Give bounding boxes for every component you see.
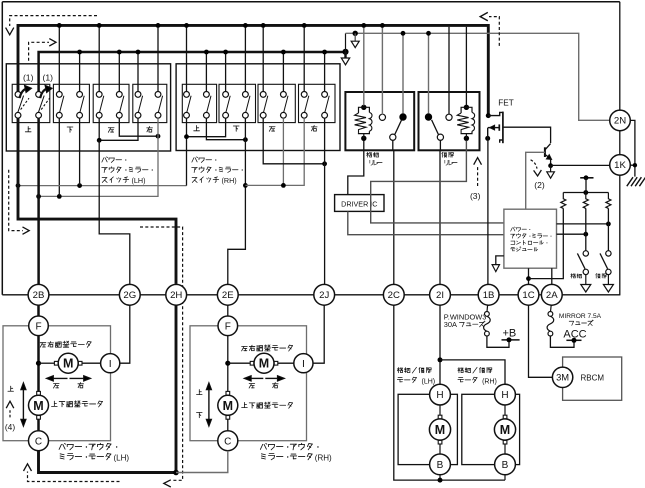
resistor network top rail bbox=[563, 192, 608, 194]
svg-text:+B: +B bbox=[503, 328, 517, 340]
wire 2N right bypass to ground bbox=[630, 120, 635, 176]
retract relay coil with resistor bbox=[361, 105, 366, 110]
wire F to M2 RH bbox=[227, 336, 229, 392]
svg-text:2G: 2G bbox=[123, 290, 136, 301]
resistor R2 bbox=[583, 193, 588, 209]
svg-text:(RH): (RH) bbox=[222, 176, 237, 185]
power outer mirror switch LH box bbox=[6, 64, 170, 151]
ACC tap bbox=[566, 339, 581, 341]
wire 2E to F bbox=[227, 305, 229, 316]
retract relay contacts bbox=[379, 114, 385, 120]
wire: 1K to row bbox=[619, 175, 621, 295]
MIRROR fuse bbox=[550, 305, 553, 311]
dashed guide arrow (2) bbox=[531, 160, 537, 169]
long dashed guide down the middle bbox=[140, 227, 183, 480]
wire I to 2J bbox=[313, 305, 324, 363]
retract motor RH label bbox=[458, 367, 492, 373]
wire M1 to I RH bbox=[278, 362, 294, 364]
up down arrow RH bbox=[208, 388, 210, 421]
wire: main loop left edge bbox=[1, 2, 3, 295]
svg-text:(RH): (RH) bbox=[482, 378, 497, 385]
retract relay box bbox=[345, 92, 414, 150]
svg-text:M: M bbox=[259, 357, 269, 371]
svg-text:(1): (1) bbox=[43, 72, 54, 82]
svg-text:F: F bbox=[35, 321, 41, 332]
connector 1C bbox=[518, 284, 539, 305]
connector 2H bbox=[166, 284, 187, 305]
svg-text:B: B bbox=[502, 460, 509, 471]
retract motor RH box bbox=[462, 394, 520, 464]
adjust motor label RH bbox=[242, 345, 293, 351]
retract motor LH circles bbox=[430, 384, 451, 405]
switch LH label text bbox=[102, 157, 127, 163]
wire node to M1 RH bbox=[228, 362, 250, 364]
retract motor LH box bbox=[398, 394, 457, 464]
wire downL to line B bbox=[58, 118, 60, 196]
svg-text:B: B bbox=[437, 460, 444, 471]
switch RH solid blades bbox=[187, 96, 191, 113]
dashed guide arrow top-right bbox=[489, 17, 499, 46]
svg-text:(1): (1) bbox=[23, 72, 34, 82]
svg-text:(3): (3) bbox=[470, 191, 481, 201]
svg-text:(2): (2) bbox=[534, 180, 545, 190]
connector C RH bbox=[218, 431, 238, 451]
connector 2N bbox=[610, 110, 631, 131]
wire M2 to C bbox=[37, 419, 40, 430]
wire FET drain to transistor collector bbox=[503, 127, 551, 143]
emitter ground arrow bbox=[550, 166, 552, 172]
power outer mirror motor RH box bbox=[190, 326, 307, 441]
svg-text:M: M bbox=[63, 357, 73, 371]
svg-text:2B: 2B bbox=[33, 290, 45, 301]
wire FET source to 1B bbox=[487, 138, 489, 284]
connector C LH bbox=[29, 431, 49, 451]
retract motor RH circles bbox=[495, 384, 516, 405]
thick wire upR bottom to 2B bbox=[37, 118, 40, 284]
dashed guide arrow to-right mid-left bbox=[9, 170, 23, 231]
relay feed wires gray bbox=[363, 27, 365, 106]
+B tap bbox=[502, 339, 520, 341]
return relay feeds from bus1 bbox=[448, 27, 450, 115]
svg-text:(LH): (LH) bbox=[132, 176, 146, 185]
svg-text:(LH): (LH) bbox=[114, 453, 130, 462]
return relay contacts bbox=[425, 113, 432, 120]
motor RH label bbox=[260, 443, 318, 450]
switch LH inner boxes up/down/left/right bbox=[12, 84, 50, 122]
connector 2E bbox=[217, 284, 238, 305]
connector I RH bbox=[294, 354, 313, 373]
retract switch bbox=[585, 234, 587, 251]
svg-text:ACC: ACC bbox=[563, 329, 586, 341]
dashed guide arrow (3) bbox=[477, 165, 479, 186]
svg-text:3M: 3M bbox=[556, 372, 569, 383]
wire I to 2G bbox=[120, 305, 130, 363]
svg-text:1C: 1C bbox=[522, 290, 534, 301]
bus3 inline connector arrow bbox=[353, 31, 358, 36]
power tap bar bbox=[580, 177, 593, 179]
module ground pin arrow bbox=[496, 256, 504, 265]
svg-text:C: C bbox=[224, 436, 231, 447]
wire node to M1 bbox=[39, 362, 55, 364]
svg-text:2H: 2H bbox=[170, 290, 182, 301]
wire 2C down and across bottom bbox=[394, 305, 505, 480]
wire branch to RH retract motor bbox=[440, 360, 505, 384]
wire module pin to 1C bbox=[528, 268, 530, 284]
gray wire RH left-right motor pair bbox=[245, 118, 304, 185]
switch LH contact circles bbox=[15, 92, 21, 98]
power outer mirror switch RH box bbox=[176, 64, 340, 151]
wire LH leftR joins rightR bbox=[119, 118, 158, 136]
connector 1K bbox=[610, 155, 631, 176]
switch LH up-switch dashed blades and (1) arrows bbox=[18, 96, 24, 113]
switch RH contact circles bbox=[184, 92, 190, 98]
switch RH labels bbox=[194, 126, 200, 131]
svg-text:I: I bbox=[109, 358, 112, 370]
svg-text:H: H bbox=[436, 390, 443, 401]
return relay box bbox=[419, 92, 480, 150]
wire 2I down to motors bbox=[439, 305, 441, 384]
wire module to resistor2 / retract switch bbox=[557, 233, 586, 235]
gray wire C RH to bottom node bbox=[176, 451, 228, 473]
return relay label bbox=[442, 152, 454, 157]
wire LH rightR down to line B bbox=[39, 118, 158, 196]
motor M2 RH bbox=[226, 391, 230, 395]
svg-text:M: M bbox=[223, 399, 233, 413]
resistor R1 bbox=[561, 193, 566, 209]
RBCM box bbox=[563, 357, 622, 400]
wire: 2N to 1K bbox=[619, 131, 621, 155]
power outer mirror motor LH box bbox=[3, 326, 111, 441]
wire module to resistor3 / return switch bbox=[557, 223, 609, 225]
motor M1 LH (left-right) bbox=[54, 361, 58, 365]
svg-text:MIRROR 7.5A: MIRROR 7.5A bbox=[559, 313, 602, 320]
line B junction dots bbox=[36, 194, 41, 199]
svg-text:2E: 2E bbox=[222, 290, 234, 301]
connector F RH bbox=[218, 316, 238, 336]
connector I LH bbox=[101, 354, 120, 373]
connector 2G bbox=[119, 284, 140, 305]
wire RH leftL joins rightR wire bbox=[263, 118, 324, 164]
wire RH downR to 2E bbox=[228, 118, 246, 284]
connector 3M bbox=[552, 367, 572, 387]
svg-text:(4): (4) bbox=[5, 422, 15, 432]
connector F LH bbox=[29, 316, 49, 336]
svg-text:M: M bbox=[435, 423, 445, 437]
retract relay label bbox=[367, 152, 379, 157]
dashed guide arrow small right bbox=[29, 42, 49, 61]
connector 2J bbox=[314, 284, 335, 305]
svg-text:2J: 2J bbox=[319, 290, 329, 301]
resistor1 branch to 1C wire bbox=[529, 208, 564, 278]
connector 1B bbox=[478, 284, 499, 305]
motor M2 LH (up-down) bbox=[37, 391, 41, 395]
svg-text:(RH): (RH) bbox=[315, 453, 332, 462]
svg-text:レ: レ bbox=[372, 160, 379, 167]
left right arrows RH bbox=[248, 377, 263, 379]
svg-text:C: C bbox=[35, 436, 42, 447]
svg-text:1B: 1B bbox=[483, 290, 495, 301]
wire transistor emitter to 1K bbox=[551, 164, 610, 166]
wire M1 to I bbox=[82, 362, 101, 364]
wire module pin to 2A bbox=[551, 268, 553, 284]
wire LH leftL joins rightL bbox=[99, 118, 138, 140]
wire module to transistor base bbox=[526, 152, 545, 209]
connector 2I bbox=[430, 284, 451, 305]
connector 2C bbox=[383, 284, 404, 305]
wire 2B to F bbox=[37, 305, 40, 316]
wire downR to line A bbox=[79, 118, 81, 185]
FET Q1 bbox=[486, 113, 491, 118]
bus3 gray wire to 2N bbox=[346, 33, 610, 120]
svg-text:H: H bbox=[501, 390, 508, 401]
switch RH feeds from buses bbox=[186, 27, 188, 92]
bus2 thick wire bbox=[39, 52, 346, 92]
driver ic box bbox=[335, 195, 384, 212]
P.WINDOW3 fuse bbox=[486, 305, 489, 311]
svg-text:M: M bbox=[33, 399, 43, 413]
svg-text:M: M bbox=[500, 423, 510, 437]
wire return relay common to 2I bbox=[439, 140, 441, 151]
wire return coil to module (upper) bbox=[371, 141, 504, 223]
thick wire C to bottom node bbox=[39, 451, 177, 473]
svg-text:(LH): (LH) bbox=[422, 378, 436, 385]
bus2 end inline connector arrow bbox=[342, 49, 348, 55]
wire: right edge to 2N bbox=[619, 2, 621, 110]
wire: connector row line bbox=[2, 294, 28, 296]
connector 2A bbox=[541, 284, 562, 305]
svg-text:レ: レ bbox=[447, 160, 454, 167]
svg-text:2A: 2A bbox=[546, 290, 558, 301]
svg-text:DRIVER IC: DRIVER IC bbox=[341, 199, 377, 208]
svg-text:2I: 2I bbox=[436, 290, 444, 301]
svg-text:1K: 1K bbox=[614, 160, 626, 171]
wire M2 to C RH bbox=[227, 419, 229, 430]
motor LH label bbox=[59, 443, 117, 450]
wire 1C to 3M bbox=[529, 305, 553, 377]
switch RH label text bbox=[192, 157, 217, 163]
bus1 thick power wire bbox=[18, 25, 488, 114]
wire retract coil to driver ic bbox=[348, 141, 364, 195]
wire RH rightR to 2J bbox=[324, 118, 326, 284]
svg-text:2N: 2N bbox=[614, 116, 626, 127]
wire leftL node to 2G bbox=[99, 140, 130, 284]
up down arrow LH bbox=[22, 388, 24, 421]
line A gray wire bbox=[18, 185, 187, 187]
retract motor LH label bbox=[397, 367, 431, 373]
dashed guide arrow (1) top-left bbox=[10, 16, 97, 26]
wire: main loop top edge bbox=[2, 1, 620, 3]
resistor R3 bbox=[606, 193, 611, 209]
thick wire F to M2 bbox=[37, 336, 40, 392]
switch LH feeds from buses bbox=[58, 27, 60, 92]
svg-text:30A: 30A bbox=[444, 320, 457, 329]
wire RH upR joins downR bbox=[206, 118, 245, 140]
switch LH up/down/left/right labels bbox=[25, 127, 31, 132]
transistor Q2 bbox=[544, 147, 546, 157]
return relay coil with resistor bbox=[464, 105, 469, 110]
dashed guide arrow (4) bbox=[9, 408, 11, 417]
svg-text:RBCM: RBCM bbox=[581, 374, 605, 383]
switch RH inner boxes bbox=[182, 84, 216, 122]
svg-text:I: I bbox=[302, 358, 305, 370]
adjust motor label LH bbox=[40, 341, 91, 347]
connector 2B bbox=[28, 284, 49, 305]
return switch bbox=[607, 224, 609, 251]
switch LH solid blades bbox=[60, 96, 64, 113]
bus2-bus3 link bbox=[345, 33, 347, 52]
thick wire 2H down to bottom node bbox=[175, 305, 178, 472]
wire retract relay common to 2C bbox=[392, 140, 394, 151]
motor M1 RH bbox=[250, 361, 254, 365]
left right arrows LH bbox=[50, 377, 68, 379]
ground symbol bbox=[627, 177, 645, 186]
dashed guide arrow up at C bbox=[28, 472, 120, 482]
thick wire upL bottom to 2H bbox=[18, 118, 176, 284]
power outer mirror control module box bbox=[504, 209, 557, 268]
wire driver ic to module (lower) bbox=[348, 211, 504, 234]
svg-text:F: F bbox=[225, 321, 231, 332]
wire RH upL joins downL bbox=[187, 118, 226, 185]
svg-text:2C: 2C bbox=[388, 290, 400, 301]
svg-text:FET: FET bbox=[498, 98, 513, 107]
